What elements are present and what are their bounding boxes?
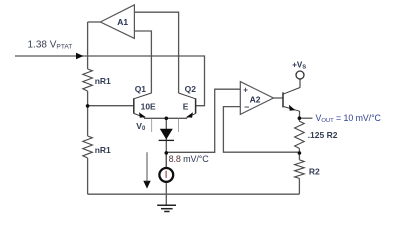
svg-text:–: – — [244, 101, 249, 111]
svg-text:Q2: Q2 — [185, 84, 197, 94]
svg-text:.125 R2: .125 R2 — [308, 130, 338, 140]
svg-text:10E: 10E — [141, 101, 156, 111]
svg-text:nR1: nR1 — [95, 145, 111, 155]
svg-text:+: + — [243, 85, 248, 94]
svg-text:A2: A2 — [250, 94, 261, 104]
svg-text:A1: A1 — [117, 17, 128, 27]
svg-text:8.8 mV/°C: 8.8 mV/°C — [169, 154, 210, 164]
svg-text:Q1: Q1 — [135, 84, 147, 94]
svg-text:R2: R2 — [309, 167, 320, 177]
svg-text:E: E — [183, 101, 189, 111]
svg-text:nR1: nR1 — [95, 76, 111, 86]
